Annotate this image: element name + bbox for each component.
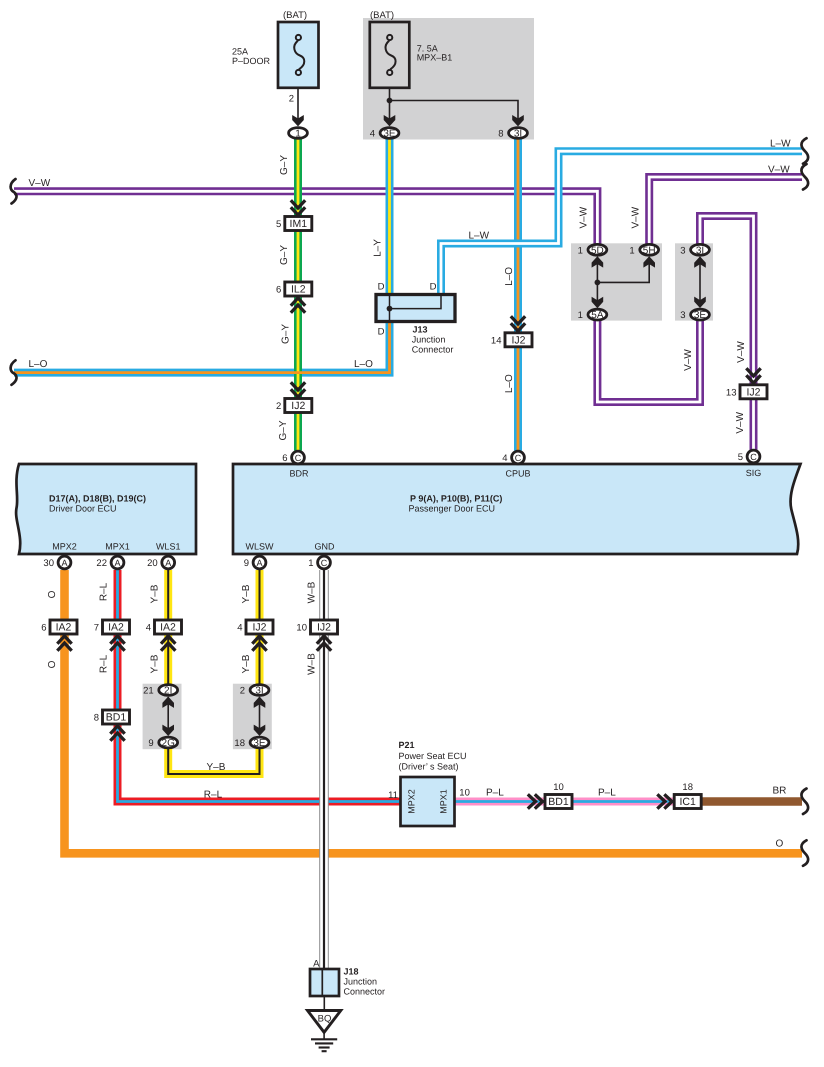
svg-text:5H: 5H <box>643 245 656 256</box>
connector 3E fuse <box>370 128 399 140</box>
svg-text:25A: 25A <box>232 47 248 57</box>
wire L-O J13 <box>14 320 390 373</box>
pin WLS1 20 <box>147 556 174 569</box>
arrow into 3E right <box>694 297 706 308</box>
svg-text:14: 14 <box>491 335 502 346</box>
connector chevron BD1-8 out <box>110 726 124 741</box>
connector box IM1 <box>276 217 312 231</box>
connector box IC1-18 <box>674 782 701 809</box>
svg-text:R–L: R–L <box>99 654 110 673</box>
svg-text:Y–B: Y–B <box>241 584 252 603</box>
svg-text:4: 4 <box>237 623 242 634</box>
J18 ground lead <box>323 995 325 1010</box>
svg-text:IJ2: IJ2 <box>291 400 305 412</box>
connector box IJ2-13 <box>726 385 767 399</box>
svg-text:Junction: Junction <box>344 977 378 987</box>
connector box IJ2-4 <box>237 620 273 634</box>
svg-text:(BAT): (BAT) <box>370 10 394 21</box>
svg-text:D17(A), D18(B), D19(C): D17(A), D18(B), D19(C) <box>49 494 146 504</box>
svg-text:IA2: IA2 <box>160 622 176 634</box>
svg-text:O: O <box>776 839 784 850</box>
connector box IJ2-10 <box>296 620 337 634</box>
svg-text:C: C <box>321 558 328 568</box>
svg-text:A: A <box>165 558 171 568</box>
fuse element 25A symbol <box>294 35 304 75</box>
junction connector J13 <box>376 295 455 322</box>
connector box IA2-4 <box>146 620 182 634</box>
svg-text:C: C <box>750 452 757 462</box>
svg-text:J13: J13 <box>413 325 428 335</box>
svg-text:MPX2: MPX2 <box>52 541 77 551</box>
svg-text:V–W: V–W <box>735 411 746 433</box>
svg-text:(Driver’ s Seat): (Driver’ s Seat) <box>399 761 459 771</box>
connector 1 <box>289 128 308 140</box>
svg-text:3I: 3I <box>255 686 263 697</box>
ECU box P9/P10/P11 Passenger Door ECU <box>233 464 801 554</box>
connector chevron IJ2-10 out <box>317 636 331 651</box>
arrow into 3E fuse <box>384 115 396 126</box>
connector chevron IL2 out <box>291 298 305 313</box>
svg-text:1: 1 <box>295 129 301 140</box>
svg-text:IJ2: IJ2 <box>317 622 331 634</box>
svg-text:MPX1: MPX1 <box>105 541 130 551</box>
junction dot 5D-5A <box>595 280 601 286</box>
svg-text:Junction: Junction <box>412 335 446 345</box>
gray block 3I/3E lower <box>233 684 272 750</box>
svg-text:1: 1 <box>308 558 313 569</box>
svg-text:8: 8 <box>94 713 99 724</box>
svg-text:30: 30 <box>43 558 54 569</box>
svg-text:6: 6 <box>41 623 46 634</box>
svg-text:V–W: V–W <box>579 206 590 228</box>
svg-text:A: A <box>61 558 67 568</box>
connector 3I right <box>680 244 709 256</box>
ECU box D17/D18/D19 Driver Door ECU <box>16 464 196 554</box>
wire L-Y <box>386 139 394 295</box>
svg-text:G–Y: G–Y <box>278 420 289 440</box>
arrow into 3I lower <box>254 697 266 708</box>
connector 2I <box>143 685 177 697</box>
arrow into 1 <box>292 115 304 126</box>
svg-text:GND: GND <box>315 541 336 551</box>
wire L-O J13 center stripe <box>14 320 390 373</box>
svg-text:D: D <box>378 327 385 338</box>
fuse 7.5A leads <box>390 75 519 119</box>
svg-text:WLS1: WLS1 <box>156 541 181 551</box>
svg-text:9: 9 <box>148 738 153 749</box>
svg-text:2I: 2I <box>164 686 172 697</box>
arrow into 2I <box>162 697 174 708</box>
svg-text:3I: 3I <box>514 129 522 140</box>
svg-text:SIG: SIG <box>746 468 762 478</box>
arrow into 5H <box>643 256 655 267</box>
svg-text:Power Seat ECU: Power Seat ECU <box>399 751 467 761</box>
svg-text:5: 5 <box>276 219 281 230</box>
fuse 7.5A MPX-B1 <box>370 22 410 88</box>
connector 3E lower <box>234 737 268 749</box>
svg-text:Y–B: Y–B <box>150 584 161 603</box>
pin GND 1 <box>308 556 330 569</box>
link 3I-3E lower <box>259 697 261 735</box>
connector 5H <box>629 244 658 256</box>
svg-text:G–Y: G–Y <box>279 155 290 175</box>
connector chevron IJ2-14 in <box>511 316 525 331</box>
svg-text:3: 3 <box>680 310 685 321</box>
gray block fuse MPX-B1 <box>363 18 534 140</box>
svg-text:1: 1 <box>629 245 634 256</box>
svg-text:Passenger Door ECU: Passenger Door ECU <box>409 504 496 514</box>
svg-text:9: 9 <box>244 558 249 569</box>
pin BDR 6 <box>282 451 304 464</box>
svg-text:J18: J18 <box>344 967 359 977</box>
svg-text:A: A <box>313 958 320 969</box>
svg-text:22: 22 <box>96 558 107 569</box>
svg-text:D: D <box>430 282 437 293</box>
svg-text:BR: BR <box>773 786 787 797</box>
svg-text:G–Y: G–Y <box>281 324 292 344</box>
connector box IL2 <box>276 282 312 296</box>
fuse 25A lead <box>297 75 299 119</box>
continuation mark V-W left <box>11 179 17 204</box>
connector chevron BD1-10 in <box>528 794 543 808</box>
pin WLSW 9 <box>244 556 266 569</box>
wire Y-B WLS1 branch <box>164 570 172 685</box>
ground symbol BQ <box>308 1011 341 1052</box>
connector 5A <box>578 309 607 321</box>
svg-text:MPX1: MPX1 <box>439 789 449 814</box>
fuse element 7.5A symbol <box>386 35 396 75</box>
svg-text:3E: 3E <box>694 310 707 321</box>
svg-text:10: 10 <box>459 788 470 799</box>
svg-text:IA2: IA2 <box>56 622 72 634</box>
svg-text:L–O: L–O <box>354 359 373 370</box>
svg-text:W–B: W–B <box>307 581 318 603</box>
arrow into 5A <box>592 297 604 308</box>
connector chevron IA2-4 out <box>161 636 175 651</box>
connector box IJ2-2 <box>276 399 312 413</box>
svg-text:IA2: IA2 <box>108 622 124 634</box>
svg-text:3E: 3E <box>253 738 266 749</box>
pin MPX1 22 <box>96 556 123 569</box>
fuse 25A P-DOOR <box>278 22 319 88</box>
continuation mark L-W right <box>801 138 808 164</box>
svg-text:P–L: P–L <box>598 787 616 798</box>
svg-text:BQ: BQ <box>318 1014 332 1025</box>
svg-text:6: 6 <box>282 453 287 464</box>
connector chevron IJ2-2 in <box>291 382 305 397</box>
junction dot fuse <box>387 98 393 104</box>
wire L-W <box>441 151 802 295</box>
svg-text:P21: P21 <box>399 740 415 750</box>
svg-text:5A: 5A <box>591 310 604 321</box>
connector chevron IA2-6 out <box>57 636 71 651</box>
wire V-W left feed <box>14 191 597 245</box>
svg-text:5: 5 <box>738 452 743 463</box>
wire V-W right feed <box>649 177 802 245</box>
svg-text:IM1: IM1 <box>290 218 308 230</box>
svg-text:CPUB: CPUB <box>505 469 530 479</box>
svg-text:W–B: W–B <box>307 653 318 675</box>
connector box IA2-6 <box>41 620 77 634</box>
gray block 2I/2G <box>143 684 182 750</box>
connector box IJ2-14 <box>491 333 532 347</box>
svg-text:18: 18 <box>234 738 245 749</box>
svg-text:O: O <box>47 660 58 668</box>
svg-text:2G: 2G <box>162 738 176 749</box>
svg-text:3: 3 <box>680 245 685 256</box>
svg-text:4: 4 <box>502 453 507 464</box>
svg-text:IL2: IL2 <box>291 284 306 296</box>
svg-text:2: 2 <box>289 94 294 105</box>
svg-text:L–O: L–O <box>504 374 515 393</box>
svg-text:BD1: BD1 <box>106 712 127 724</box>
svg-text:A: A <box>256 558 262 568</box>
continuation mark L-O left <box>11 360 17 385</box>
svg-text:L–O: L–O <box>504 267 515 286</box>
wire P-L <box>455 798 802 806</box>
connector 2G <box>148 737 177 749</box>
svg-text:P–L: P–L <box>486 787 504 798</box>
connector box BD1-10 <box>545 782 572 809</box>
svg-text:V–W: V–W <box>29 178 51 189</box>
svg-text:P–DOOR: P–DOOR <box>232 56 271 66</box>
svg-text:Y–B: Y–B <box>150 654 161 673</box>
svg-text:V–W: V–W <box>736 341 747 363</box>
connector 3I lower <box>240 685 269 697</box>
connector 5D <box>578 244 607 256</box>
connector chevron IJ2-13 in <box>746 368 760 383</box>
svg-text:IC1: IC1 <box>680 796 697 808</box>
svg-text:D: D <box>378 282 385 293</box>
svg-text:4: 4 <box>146 623 151 634</box>
junction connector J18 <box>310 969 339 996</box>
svg-text:L–W: L–W <box>770 139 791 150</box>
svg-text:L–W: L–W <box>469 231 490 242</box>
svg-text:V–W: V–W <box>768 164 790 175</box>
arrow into 5D <box>592 256 604 267</box>
pin CPUB 4 <box>502 451 524 464</box>
svg-text:3E: 3E <box>383 129 396 140</box>
continuation mark V-W right <box>801 164 808 190</box>
wire G-Y <box>294 139 302 451</box>
connector chevron IJ2-4 out <box>252 636 266 651</box>
svg-text:G–Y: G–Y <box>279 245 290 265</box>
svg-text:1: 1 <box>578 310 583 321</box>
svg-text:10: 10 <box>296 623 307 634</box>
pin SIG 5 <box>738 450 760 463</box>
gray block 5D/5H/5A <box>571 243 662 320</box>
svg-text:R–L: R–L <box>204 790 223 801</box>
wire Y-B U link <box>168 748 259 774</box>
link 3I-3E right <box>699 257 701 307</box>
wire BR <box>701 797 802 806</box>
connector chevron IA2-7 out <box>110 636 124 651</box>
svg-text:WLSW: WLSW <box>246 541 275 551</box>
link 5D-5A-5H <box>597 257 649 307</box>
svg-text:1: 1 <box>578 245 583 256</box>
svg-text:IJ2: IJ2 <box>746 387 760 399</box>
svg-text:Driver Door ECU: Driver Door ECU <box>49 504 117 514</box>
connector 3E right <box>680 309 709 321</box>
pin MPX2 30 <box>43 556 70 569</box>
svg-text:MPX2: MPX2 <box>407 789 417 814</box>
svg-text:Connector: Connector <box>344 987 386 997</box>
wire O run <box>65 570 803 853</box>
svg-text:A: A <box>114 558 120 568</box>
wire L-O CPUB <box>514 139 522 451</box>
continuation mark O right <box>801 840 808 866</box>
svg-text:V–W: V–W <box>630 206 641 228</box>
gray block 3I/3E right <box>675 243 713 320</box>
svg-text:2: 2 <box>276 401 281 412</box>
svg-text:L–O: L–O <box>29 359 48 370</box>
wire V-W 5A-3E <box>597 320 700 403</box>
wire Y-B WLSW branch <box>256 570 264 685</box>
svg-text:V–W: V–W <box>683 349 694 371</box>
svg-text:R–L: R–L <box>99 582 110 601</box>
svg-text:C: C <box>295 453 302 463</box>
svg-text:Y–B: Y–B <box>241 654 252 673</box>
arrow into 3I fuse <box>512 115 524 126</box>
wire V-W 3I-SIG <box>700 216 754 451</box>
svg-text:Y–B: Y–B <box>207 762 226 773</box>
wire R-L <box>118 570 401 802</box>
arrow into 2G <box>162 725 174 736</box>
arrow into 3E lower <box>254 725 266 736</box>
svg-text:P 9(A), P10(B), P11(C): P 9(A), P10(B), P11(C) <box>410 494 502 504</box>
connector box IA2-7 <box>94 620 130 634</box>
svg-text:2: 2 <box>240 686 245 697</box>
svg-text:MPX–B1: MPX–B1 <box>417 53 453 63</box>
svg-text:C: C <box>515 453 522 463</box>
svg-text:IJ2: IJ2 <box>511 335 525 347</box>
arrow into 3I right <box>694 256 706 267</box>
svg-text:3I: 3I <box>696 245 704 256</box>
svg-text:L–Y: L–Y <box>373 239 384 257</box>
svg-text:(BAT): (BAT) <box>283 10 307 21</box>
continuation mark BR right <box>801 789 808 815</box>
svg-text:Connector: Connector <box>412 345 454 355</box>
connector chevron IC1-18 in <box>657 794 672 808</box>
svg-text:BD1: BD1 <box>548 796 569 808</box>
connector box BD1-8 <box>94 710 130 724</box>
svg-text:10: 10 <box>553 782 564 793</box>
svg-text:IJ2: IJ2 <box>252 622 266 634</box>
svg-text:6: 6 <box>276 285 281 296</box>
svg-text:13: 13 <box>726 387 737 398</box>
svg-text:20: 20 <box>147 558 158 569</box>
svg-text:7: 7 <box>94 623 99 634</box>
connector 3I fuse <box>498 128 527 140</box>
svg-text:11: 11 <box>388 790 398 801</box>
svg-text:BDR: BDR <box>289 469 309 479</box>
wire W-B <box>319 570 329 970</box>
svg-text:21: 21 <box>143 686 154 697</box>
svg-text:5D: 5D <box>591 245 604 256</box>
svg-text:8: 8 <box>498 129 503 140</box>
ECU P21 Power Seat <box>401 777 455 826</box>
connector chevron IM1 in <box>291 200 305 215</box>
svg-text:O: O <box>47 590 58 598</box>
link 2I-2G <box>167 697 169 735</box>
svg-text:4: 4 <box>370 129 375 140</box>
svg-text:18: 18 <box>682 782 693 793</box>
